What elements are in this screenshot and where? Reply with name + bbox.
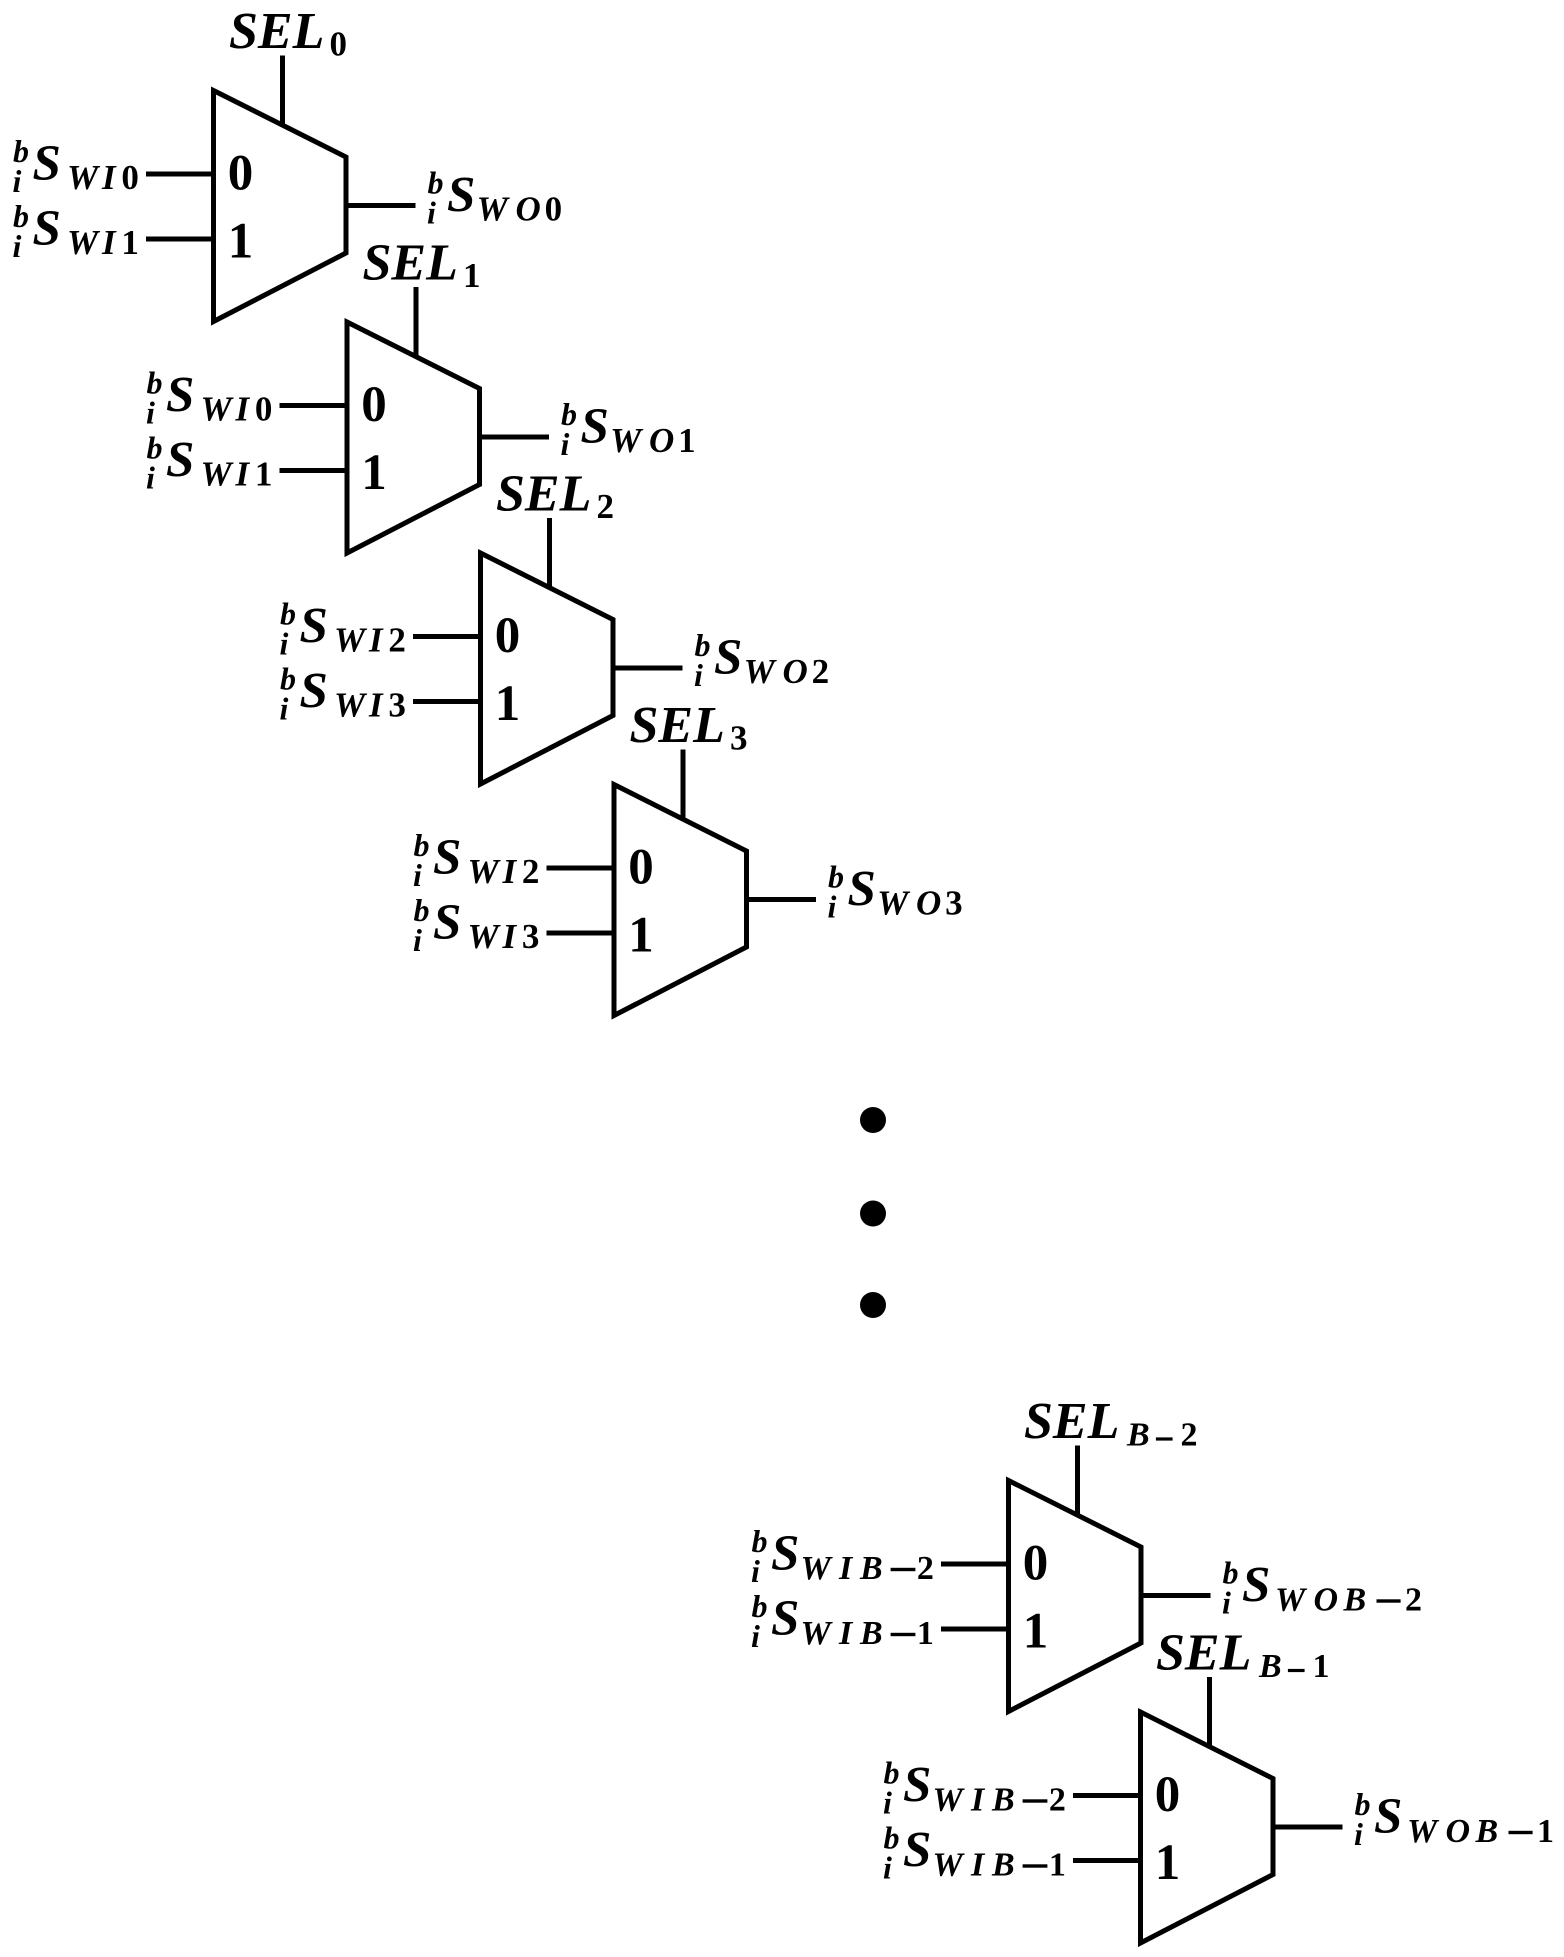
pin number 1 inside mux U4 (1023, 1604, 1049, 1660)
svg-text:3: 3 (945, 884, 963, 923)
svg-text:O: O (649, 421, 674, 460)
svg-text:SEL: SEL (630, 697, 725, 754)
svg-text:B: B (859, 1550, 883, 1587)
wire output (WO2) from mux U2 (613, 666, 683, 671)
svg-text:1: 1 (1155, 1835, 1181, 1891)
svg-text:W: W (877, 884, 911, 923)
svg-text:W: W (610, 421, 644, 460)
svg-text:i: i (1354, 1816, 1363, 1852)
svg-text:W: W (334, 621, 368, 660)
svg-text:2: 2 (812, 652, 830, 691)
svg-text:I: I (970, 1847, 986, 1884)
svg-text:2: 2 (1405, 1582, 1422, 1619)
svg-text:I: I (970, 1782, 986, 1819)
svg-text:0: 0 (495, 608, 521, 664)
svg-text:S: S (433, 830, 461, 886)
svg-text:W: W (201, 455, 235, 494)
wire select line SEL2 into mux U2 (547, 518, 552, 588)
svg-text:3: 3 (388, 686, 406, 725)
pin number 0 inside mux U5 (1155, 1767, 1181, 1823)
wire select line SELB-2 into mux U4 (1075, 1446, 1080, 1516)
svg-text:1: 1 (228, 214, 254, 270)
svg-text:i: i (280, 626, 289, 662)
svg-text:0: 0 (255, 390, 273, 429)
svg-text:B: B (991, 1847, 1015, 1884)
svg-text:B: B (1475, 1813, 1499, 1850)
svg-text:SEL: SEL (496, 466, 591, 523)
svg-text:I: I (838, 1615, 854, 1652)
wire select line SELB-1 into mux U5 (1207, 1677, 1212, 1747)
label input signal name biS_WI3 (input 1 of mux U3) (413, 892, 539, 958)
svg-text:i: i (280, 691, 289, 727)
svg-text:1: 1 (361, 445, 387, 501)
svg-text:S: S (848, 862, 876, 918)
wire output (WOB-1) from mux U5 (1273, 1825, 1343, 1830)
svg-text:O: O (1446, 1813, 1471, 1850)
svg-text:i: i (146, 395, 155, 431)
svg-text:i: i (883, 1785, 892, 1821)
svg-text:SEL: SEL (1156, 1625, 1251, 1682)
svg-text:W: W (744, 652, 778, 691)
mux U3 2:1 multiplexer body (trapezoid symbol) (614, 785, 747, 1016)
label select signal name SELB-2 (1024, 1393, 1198, 1454)
wire input 1 (WI3) into mux U2 (413, 699, 481, 704)
label output signal name biS_WO1 (output of mux U1) (561, 396, 696, 462)
svg-text:O: O (783, 652, 808, 691)
label output signal name biS_WO0 (output of mux U0) (427, 165, 562, 231)
ellipsis dot 3 (vertical continuation marker) (860, 1292, 886, 1318)
wire input 0 (WI2) into mux U2 (413, 634, 481, 639)
wire output (WO1) from mux U1 (480, 435, 550, 440)
svg-text:2: 2 (597, 487, 615, 526)
ellipsis dot 2 (vertical continuation marker) (860, 1201, 886, 1227)
label input signal name biS_WI1 (input 1 of mux U0) (13, 198, 139, 264)
svg-text:B: B (991, 1782, 1015, 1819)
svg-text:S: S (771, 1591, 799, 1647)
svg-text:W: W (468, 852, 502, 891)
ellipsis dot 1 (vertical continuation marker) (860, 1107, 886, 1133)
label input signal name biS_WI1 (input 1 of mux U1) (146, 430, 272, 496)
svg-text:2: 2 (1181, 1417, 1198, 1454)
svg-text:1: 1 (628, 908, 654, 964)
label input signal name biS_WI2 (input 0 of mux U3) (413, 827, 539, 893)
svg-text:W: W (334, 686, 368, 725)
svg-text:1: 1 (121, 223, 138, 262)
svg-text:i: i (13, 163, 22, 199)
svg-text:S: S (447, 168, 475, 224)
svg-text:S: S (300, 664, 328, 720)
svg-text:S: S (300, 599, 328, 655)
svg-text:i: i (561, 426, 570, 462)
wire input 0 (WI2) into mux U3 (547, 866, 615, 871)
svg-text:1: 1 (255, 455, 273, 494)
svg-text:1: 1 (495, 676, 521, 732)
svg-text:2: 2 (917, 1550, 934, 1587)
svg-text:0: 0 (1023, 1536, 1049, 1592)
wire output (WO0) from mux U0 (346, 203, 416, 208)
svg-text:S: S (1242, 1558, 1270, 1614)
wire input 1 (WIB-1) into mux U5 (1073, 1858, 1141, 1863)
label select signal name SEL2 (496, 466, 614, 527)
svg-text:0: 0 (545, 190, 563, 229)
label input signal name biS_WIB-1 (input 1 of mux U4) (751, 1588, 934, 1654)
svg-text:I: I (235, 455, 251, 494)
svg-text:I: I (368, 621, 384, 660)
mux U4 2:1 multiplexer body (trapezoid symbol) (1009, 1481, 1142, 1712)
pin number 0 inside mux U1 (361, 377, 387, 433)
svg-text:O: O (1314, 1582, 1339, 1619)
svg-text:SEL: SEL (363, 235, 458, 292)
svg-text:W: W (801, 1615, 834, 1652)
svg-text:W: W (1275, 1582, 1308, 1619)
svg-text:S: S (714, 630, 742, 686)
svg-text:1: 1 (1023, 1604, 1049, 1660)
wire select line SEL3 into mux U3 (681, 750, 686, 820)
svg-text:S: S (1374, 1789, 1402, 1845)
svg-text:S: S (433, 895, 461, 951)
svg-text:I: I (838, 1550, 854, 1587)
label input signal name biS_WI0 (input 0 of mux U0) (13, 133, 139, 199)
svg-text:I: I (502, 852, 518, 891)
label output signal name biS_WOB-1 (output of mux U5) (1354, 1786, 1554, 1852)
svg-text:SEL: SEL (229, 3, 324, 60)
svg-text:1: 1 (1049, 1847, 1066, 1884)
svg-text:W: W (67, 158, 101, 197)
mux U1 2:1 multiplexer body (trapezoid symbol) (347, 322, 480, 553)
svg-text:1: 1 (1537, 1813, 1554, 1850)
svg-text:S: S (166, 433, 194, 489)
svg-text:i: i (413, 857, 422, 893)
svg-text:W: W (201, 390, 235, 429)
svg-text:3: 3 (730, 719, 748, 758)
wire input 0 (WIB-2) into mux U5 (1073, 1793, 1141, 1798)
svg-text:B: B (1126, 1417, 1150, 1454)
wire input 1 (WI1) into mux U0 (146, 237, 214, 242)
svg-text:3: 3 (522, 917, 540, 956)
svg-text:1: 1 (1313, 1648, 1330, 1685)
wire input 0 (WI0) into mux U0 (146, 172, 214, 177)
svg-text:I: I (502, 917, 518, 956)
pin number 1 inside mux U0 (228, 214, 254, 270)
svg-text:O: O (916, 884, 941, 923)
svg-text:i: i (883, 1850, 892, 1886)
label select signal name SEL0 (229, 3, 347, 64)
pin number 1 inside mux U2 (495, 676, 521, 732)
svg-text:B: B (859, 1615, 883, 1652)
svg-text:i: i (427, 195, 436, 231)
svg-text:0: 0 (361, 377, 387, 433)
svg-text:i: i (828, 889, 837, 925)
svg-text:S: S (33, 201, 61, 257)
label select signal name SEL1 (363, 235, 481, 296)
svg-text:i: i (413, 922, 422, 958)
mux U5 2:1 multiplexer body (trapezoid symbol) (1141, 1712, 1274, 1943)
label input signal name biS_WI2 (input 0 of mux U2) (280, 596, 406, 662)
svg-text:1: 1 (917, 1615, 934, 1652)
svg-text:O: O (516, 190, 541, 229)
svg-text:i: i (146, 460, 155, 496)
pin number 0 inside mux U3 (628, 840, 654, 896)
label input signal name biS_WIB-2 (input 0 of mux U5) (883, 1755, 1066, 1821)
wire input 0 (WI0) into mux U1 (280, 403, 348, 408)
svg-text:W: W (801, 1550, 834, 1587)
svg-text:S: S (903, 1758, 931, 1814)
svg-text:2: 2 (522, 852, 540, 891)
svg-text:i: i (751, 1618, 760, 1654)
svg-text:S: S (166, 368, 194, 424)
svg-text:SEL: SEL (1024, 1393, 1119, 1450)
pin number 1 inside mux U3 (628, 908, 654, 964)
svg-text:2: 2 (388, 621, 406, 660)
svg-text:0: 0 (1155, 1767, 1181, 1823)
wire select line SEL0 into mux U0 (280, 56, 285, 126)
label input signal name biS_WIB-1 (input 1 of mux U5) (883, 1820, 1066, 1886)
label input signal name biS_WIB-2 (input 0 of mux U4) (751, 1523, 934, 1589)
label output signal name biS_WO3 (output of mux U3) (828, 859, 963, 925)
label output signal name biS_WO2 (output of mux U2) (694, 627, 829, 693)
svg-text:B: B (1343, 1582, 1367, 1619)
mux U0 2:1 multiplexer body (trapezoid symbol) (214, 91, 347, 322)
wire output (WO3) from mux U3 (747, 897, 817, 902)
svg-text:i: i (751, 1553, 760, 1589)
label output signal name biS_WOB-2 (output of mux U4) (1222, 1555, 1422, 1621)
svg-text:I: I (235, 390, 251, 429)
pin number 0 inside mux U2 (495, 608, 521, 664)
svg-text:I: I (101, 223, 117, 262)
mux U2 2:1 multiplexer body (trapezoid symbol) (481, 553, 614, 784)
label input signal name biS_WI0 (input 0 of mux U1) (146, 365, 272, 431)
svg-text:S: S (33, 136, 61, 192)
svg-text:1: 1 (678, 421, 696, 460)
svg-text:W: W (477, 190, 511, 229)
label select signal name SEL3 (630, 697, 748, 758)
svg-text:i: i (694, 657, 703, 693)
svg-text:S: S (903, 1823, 931, 1879)
svg-text:I: I (368, 686, 384, 725)
wire output (WOB-2) from mux U4 (1141, 1593, 1211, 1598)
label input signal name biS_WI3 (input 1 of mux U2) (280, 661, 406, 727)
label select signal name SELB-1 (1156, 1625, 1330, 1686)
wire input 1 (WI3) into mux U3 (547, 931, 615, 936)
pin number 0 inside mux U4 (1023, 1536, 1049, 1592)
svg-text:W: W (933, 1782, 966, 1819)
svg-text:i: i (1222, 1585, 1231, 1621)
svg-text:I: I (101, 158, 117, 197)
svg-text:0: 0 (628, 840, 654, 896)
svg-text:1: 1 (463, 256, 481, 295)
wire input 1 (WIB-1) into mux U4 (941, 1627, 1009, 1632)
svg-text:2: 2 (1049, 1782, 1066, 1819)
svg-text:S: S (771, 1526, 799, 1582)
svg-text:0: 0 (228, 146, 254, 202)
wire input 0 (WIB-2) into mux U4 (941, 1562, 1009, 1567)
svg-text:0: 0 (330, 25, 348, 64)
svg-text:W: W (1407, 1813, 1440, 1850)
svg-text:i: i (13, 228, 22, 264)
pin number 1 inside mux U5 (1155, 1835, 1181, 1891)
pin number 0 inside mux U0 (228, 146, 254, 202)
svg-text:W: W (67, 223, 101, 262)
svg-text:W: W (468, 917, 502, 956)
svg-text:B: B (1258, 1648, 1282, 1685)
svg-text:W: W (933, 1847, 966, 1884)
wire select line SEL1 into mux U1 (414, 287, 419, 357)
svg-text:S: S (581, 399, 609, 455)
svg-text:0: 0 (121, 158, 138, 197)
pin number 1 inside mux U1 (361, 445, 387, 501)
wire input 1 (WI1) into mux U1 (280, 468, 348, 473)
